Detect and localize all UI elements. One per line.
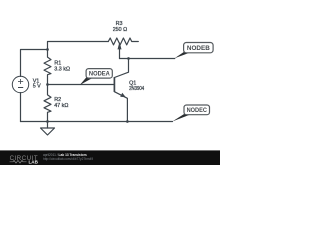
wire base bbox=[48, 84, 115, 86]
ground bbox=[47, 122, 49, 129]
footer bar bbox=[0, 150, 220, 165]
wire Q1 emitter bbox=[114, 92, 127, 122]
R3 wiper arrow bbox=[119, 47, 121, 58]
node flag NODEA bbox=[80, 69, 113, 85]
node flag NODEC bbox=[172, 105, 209, 122]
junction node B (collector) bbox=[127, 57, 130, 60]
V1 minus sign bbox=[18, 87, 23, 89]
V1 plus sign bbox=[18, 79, 23, 88]
svg-text:47 kΩ: 47 kΩ bbox=[54, 103, 68, 109]
svg-text:3.3 kΩ: 3.3 kΩ bbox=[54, 66, 70, 72]
wire V1 bottom bbox=[20, 93, 22, 122]
svg-text:LAB: LAB bbox=[29, 160, 39, 165]
svg-text:250 Ω: 250 Ω bbox=[113, 27, 128, 33]
svg-text:http://circuitlab.com/c6b77y27: http://circuitlab.com/c6b77y27bm49 bbox=[43, 157, 93, 161]
resistor R2 bbox=[44, 85, 51, 122]
node flag NODEB bbox=[175, 43, 214, 59]
svg-text:NODEB: NODEB bbox=[187, 45, 210, 52]
junction node at R1 top bbox=[46, 48, 49, 51]
wire R1 top to top rail bbox=[48, 42, 109, 50]
resistor R1 bbox=[44, 50, 51, 85]
junction node A (R1/R2/base) bbox=[46, 83, 49, 86]
svg-text:NODEC: NODEC bbox=[187, 107, 207, 114]
junction node C (emitter / rail) bbox=[126, 120, 129, 123]
svg-text:NODEA: NODEA bbox=[89, 71, 110, 78]
wire wiper to NODEB bbox=[120, 58, 175, 60]
wire bottom rail bbox=[21, 121, 173, 123]
R3 wiper arrowhead bbox=[118, 42, 122, 50]
resistor R3 bbox=[108, 38, 138, 45]
transistor Q1 base bar bbox=[113, 77, 115, 92]
wire V1 top to R1 top bbox=[21, 50, 48, 77]
wire Q1 collector bbox=[114, 59, 128, 78]
svg-text:2N3904: 2N3904 bbox=[129, 86, 144, 92]
svg-text:5 V: 5 V bbox=[33, 83, 41, 89]
Q1 emitter arrowhead bbox=[120, 93, 126, 97]
voltage source V1 bbox=[12, 76, 28, 92]
junction node at R2 bottom / ground bbox=[46, 120, 49, 123]
footer logo zigzag bbox=[10, 160, 27, 163]
